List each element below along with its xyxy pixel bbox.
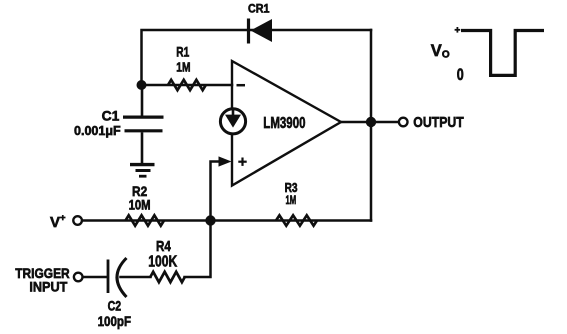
- capacitor C1 top plate: [123, 115, 164, 118]
- svg-text:LM3900: LM3900: [263, 115, 305, 132]
- op-amp non-inverting input plus sign: [238, 158, 246, 166]
- output node junction dot: [366, 117, 376, 127]
- op-amp U1 LM3900 triangle: [232, 61, 341, 186]
- svg-text:C1: C1: [102, 107, 120, 123]
- terminal TRIGGER INPUT: [74, 273, 83, 282]
- capacitor C2 left plate: [107, 260, 110, 294]
- svg-text:100K: 100K: [148, 253, 178, 270]
- terminal V+: [73, 216, 82, 225]
- svg-text:1M: 1M: [286, 193, 297, 207]
- resistor R1: [168, 80, 206, 90]
- svg-text:100pF: 100pF: [98, 314, 132, 329]
- op-amp non-inverting input arrowhead: [219, 156, 232, 166]
- op-amp inverting input minus sign: [237, 84, 246, 87]
- wire trigger terminal to C2: [83, 276, 107, 279]
- wire R1 row (node A to inverting input): [142, 84, 233, 87]
- capacitor C1 lead bottom: [141, 132, 144, 163]
- wire node B up to non-inverting input: [211, 162, 224, 221]
- node A junction dot (R1/C1/feedback): [137, 80, 147, 90]
- svg-text:CR1: CR1: [248, 4, 270, 16]
- wire V+ row to node B: [82, 219, 211, 222]
- resistor R2: [126, 215, 165, 225]
- capacitor C1 bottom plate: [125, 129, 163, 132]
- wire top feedback from node A to output rail: [142, 30, 372, 85]
- ground symbol: [130, 165, 155, 177]
- resistor R4: [150, 272, 185, 282]
- wire node B down to trigger row: [185, 221, 211, 278]
- capacitor C1 lead top: [141, 85, 144, 116]
- svg-text:1M: 1M: [176, 60, 190, 75]
- wire R3 row node B to output rail: [211, 219, 372, 222]
- op-amp current source arrow: [225, 109, 241, 128]
- resistor R3: [276, 215, 317, 225]
- wire right output rail vertical: [370, 30, 373, 221]
- node B junction dot (R2/R3/R4/+input): [205, 215, 215, 225]
- svg-text:10M: 10M: [129, 196, 151, 212]
- svg-text:INPUT: INPUT: [29, 279, 67, 295]
- svg-text:C2: C2: [108, 299, 122, 314]
- svg-text:OUTPUT: OUTPUT: [413, 115, 464, 131]
- svg-text:0.001μF: 0.001μF: [74, 123, 121, 138]
- wire output node to output terminal: [376, 121, 399, 124]
- diode CR1 cathode bar: [247, 19, 250, 44]
- capacitor C2 right curved plate: [117, 258, 127, 297]
- op-amp current source circle: [220, 109, 245, 134]
- wire op-amp apex to output node: [341, 121, 371, 124]
- waveform plus level mark: [455, 27, 461, 33]
- waveform Vo pulse: [461, 31, 544, 76]
- svg-text:R1: R1: [176, 44, 189, 59]
- svg-text:0: 0: [457, 66, 464, 84]
- terminal OUTPUT: [399, 118, 408, 127]
- wire C2 to R4: [121, 276, 151, 279]
- diode CR1 anode triangle: [251, 19, 273, 42]
